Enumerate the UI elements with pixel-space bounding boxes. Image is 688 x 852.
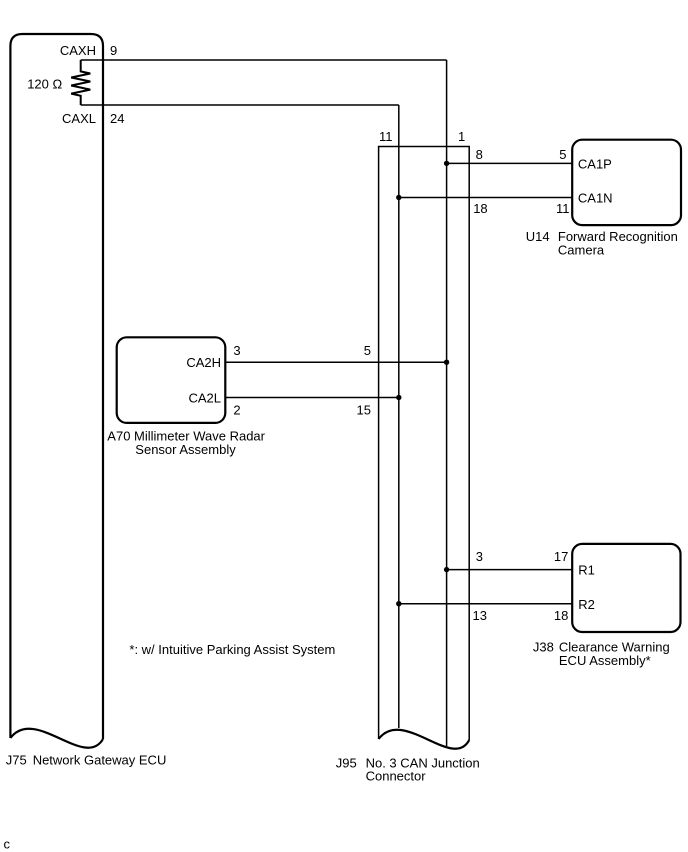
svg-text:J75: J75 <box>6 753 27 768</box>
svg-text:15: 15 <box>357 403 371 418</box>
svg-text:1: 1 <box>458 129 465 144</box>
wire R2 from J95 pin 13 to J38 pin 18 <box>399 603 572 605</box>
svg-text:Camera: Camera <box>558 243 605 258</box>
wire CAXH horizontal from resistor to junction <box>81 59 447 61</box>
svg-text:CA1N: CA1N <box>578 191 613 206</box>
svg-text:CA1P: CA1P <box>578 157 612 172</box>
svg-text:3: 3 <box>233 343 240 358</box>
wire CA2H from radar pin 3 to J95 pin 5 <box>225 361 446 363</box>
svg-text:2: 2 <box>233 403 240 418</box>
svg-text:5: 5 <box>364 343 371 358</box>
svg-text:Connector: Connector <box>366 769 427 784</box>
svg-text:18: 18 <box>473 201 487 216</box>
label J38 Clearance Warning ECU Assembly <box>533 640 670 669</box>
connector A70 Millimeter Wave Radar Sensor Assembly box <box>117 337 226 423</box>
svg-text:c: c <box>4 837 11 852</box>
junction dot CAN-L to camera <box>396 195 401 200</box>
wire CA1N from J95 pin 18 to camera pin 11 <box>399 197 572 199</box>
junction dot CAN-L to radar <box>396 395 401 400</box>
svg-text:3: 3 <box>476 549 483 564</box>
svg-text:J38: J38 <box>533 640 554 655</box>
junction dot CAN-H to camera <box>444 161 449 166</box>
svg-text:24: 24 <box>110 111 124 126</box>
wire CAN-H vertical into J95 pin 1 <box>446 60 448 746</box>
wire CA1P from J95 pin 8 to camera pin 5 <box>447 162 573 164</box>
svg-text:ECU Assembly*: ECU Assembly* <box>559 653 651 668</box>
wire CA2L from radar pin 2 to J95 pin 15 <box>225 397 398 399</box>
svg-text:J95: J95 <box>336 756 357 771</box>
svg-text:*: w/ Intuitive Parking Assist: *: w/ Intuitive Parking Assist System <box>129 642 335 657</box>
connector J38 Clearance Warning ECU Assembly box <box>572 544 680 632</box>
svg-text:11: 11 <box>556 201 570 216</box>
svg-text:11: 11 <box>379 129 393 144</box>
wire CAXL horizontal from resistor to junction <box>81 104 399 106</box>
label U14 Forward Recognition Camera <box>526 229 678 258</box>
svg-text:18: 18 <box>554 608 568 623</box>
svg-text:R1: R1 <box>578 563 595 578</box>
svg-text:U14: U14 <box>526 229 550 244</box>
svg-text:5: 5 <box>559 147 566 162</box>
wire R1 from J95 pin 3 to J38 pin 17 <box>447 569 573 571</box>
svg-text:A70: A70 <box>107 429 130 444</box>
label J75 Network Gateway ECU <box>6 753 167 768</box>
svg-text:CA2L: CA2L <box>188 391 221 406</box>
svg-text:120 Ω: 120 Ω <box>27 77 62 92</box>
svg-text:CAXH: CAXH <box>60 43 96 58</box>
junction dot CAN-H to radar <box>444 360 449 365</box>
connector J75 Network Gateway ECU box <box>10 34 103 748</box>
wire CAN-L vertical into J95 pin 11 <box>398 105 400 728</box>
svg-text:CAXL: CAXL <box>62 111 96 126</box>
junction dot CAN-H to clearance ECU <box>444 567 449 572</box>
svg-text:Sensor Assembly: Sensor Assembly <box>135 442 236 457</box>
resistor 120 ohm terminating resistor <box>71 60 90 105</box>
svg-text:17: 17 <box>554 549 568 564</box>
label A70 Millimeter Wave Radar Sensor Assembly <box>107 429 265 458</box>
label J95 No. 3 CAN Junction Connector <box>336 756 480 784</box>
connector U14 Forward Recognition Camera box <box>572 140 681 225</box>
svg-text:8: 8 <box>476 147 483 162</box>
junction dot CAN-L to clearance ECU <box>396 601 401 606</box>
svg-text:Network Gateway ECU: Network Gateway ECU <box>33 753 167 768</box>
svg-text:R2: R2 <box>578 597 595 612</box>
svg-text:CA2H: CA2H <box>186 355 221 370</box>
connector J95 No. 3 CAN Junction Connector box <box>379 147 470 749</box>
svg-text:9: 9 <box>110 43 117 58</box>
svg-text:13: 13 <box>473 608 487 623</box>
